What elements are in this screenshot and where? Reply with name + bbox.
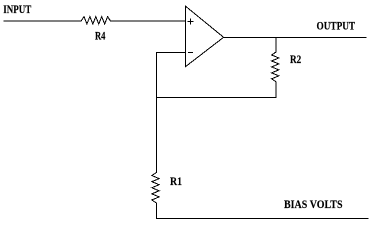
svg-text:R2: R2: [290, 54, 301, 66]
svg-text:R1: R1: [170, 176, 182, 188]
svg-text:INPUT: INPUT: [3, 4, 31, 16]
svg-text:OUTPUT: OUTPUT: [317, 21, 356, 33]
svg-text:R4: R4: [95, 31, 106, 43]
svg-text:BIAS VOLTS: BIAS VOLTS: [284, 199, 343, 211]
